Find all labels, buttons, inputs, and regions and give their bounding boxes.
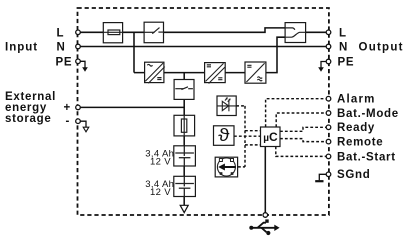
dashed bus from LED/rotary to uC [244, 106, 246, 167]
terminal Ready [326, 125, 331, 130]
svg-text:SGnd: SGnd [337, 169, 370, 181]
battery B2 symbol [175, 176, 194, 196]
dashed line temperature sensor to uC [234, 135, 261, 137]
terminal Alarm [326, 96, 331, 101]
battery switch box [174, 80, 194, 100]
terminal output N [326, 44, 331, 49]
switch S1 symbol [144, 28, 163, 34]
svg-text:Alarm: Alarm [337, 94, 376, 106]
battery B1 box [174, 146, 196, 166]
temperature sensor box [214, 126, 235, 146]
svg-text:µC: µC [263, 130, 278, 144]
dashed line LED to bus [236, 105, 245, 107]
USB symbol [249, 219, 279, 235]
terminal input L [76, 30, 81, 35]
svg-text:PE: PE [56, 56, 73, 68]
open arrow ground below battery B2 [180, 205, 188, 212]
terminal SGnd [326, 172, 331, 177]
svg-text:L: L [57, 27, 65, 39]
terminal input PE [76, 59, 81, 64]
relay (bypass switch) box [285, 23, 306, 43]
svg-text:External: External [5, 91, 56, 103]
LED indicator box [217, 96, 236, 116]
switch S1 box [144, 22, 163, 43]
microcontroller uC box [261, 127, 281, 147]
svg-text:12 V: 12 V [150, 187, 171, 198]
SGnd ground symbol [315, 174, 328, 181]
AC/DC converter symbol [145, 63, 165, 83]
battery switch symbol [175, 87, 193, 90]
svg-text:energy: energy [5, 102, 47, 114]
svg-text:Input: Input [5, 41, 38, 53]
DC/DC converter box [205, 63, 226, 83]
svg-text:L: L [339, 27, 347, 39]
dashed line uC to Ready [280, 127, 329, 131]
wire + terminal to battery column [78, 106, 184, 108]
dashed line bus to uC lower [245, 144, 261, 146]
wire L input to relay (with step up) [78, 28, 285, 32]
svg-text:Ready: Ready [337, 122, 375, 134]
terminal Remote [326, 139, 331, 144]
terminal storage minus [76, 119, 81, 124]
wire N input to output [78, 46, 329, 48]
battery B2 box [174, 176, 196, 196]
dashed enclosure border [78, 8, 329, 215]
svg-text:Output: Output [359, 42, 404, 54]
wire tap L down to AC/DC converter [133, 32, 135, 72]
svg-text:ϑ: ϑ [218, 126, 230, 146]
DC/AC inverter symbol [246, 63, 264, 82]
terminal Bat.-Mode [326, 111, 331, 116]
DC/AC inverter box [245, 62, 266, 83]
battery B1 symbol [175, 146, 194, 166]
svg-text:Bat.-Mode: Bat.-Mode [337, 108, 399, 120]
fuse F1 box [103, 23, 122, 43]
LED symbol [217, 98, 236, 112]
dashed line bus to uC upper [245, 130, 261, 132]
DC/DC converter symbol [206, 63, 226, 83]
svg-text:N: N [57, 42, 66, 54]
terminal storage plus [76, 105, 81, 110]
svg-text:12 V: 12 V [150, 157, 171, 168]
svg-text:PE: PE [338, 56, 355, 68]
output PE functional earth arrow [318, 62, 328, 72]
dashed line uC to Bat.-Start [276, 147, 329, 157]
svg-text:Remote: Remote [337, 137, 383, 149]
wire relay output to L output [306, 31, 329, 33]
terminal USB [263, 213, 268, 218]
fuse F1 symbol [103, 30, 122, 35]
terminal output PE [326, 59, 331, 64]
svg-text:-: - [66, 116, 71, 128]
relay contact symbol [285, 28, 306, 37]
dashed line rotary selector to bus [238, 166, 245, 168]
dashed line uC to Alarm [266, 99, 329, 127]
rotary selector box [215, 157, 237, 177]
svg-text:storage: storage [5, 113, 51, 125]
wire uC to USB terminal [264, 147, 266, 216]
wire battery column [183, 73, 185, 206]
terminal input N [76, 44, 81, 49]
battery fuse F2 box [174, 115, 195, 136]
rotary selector symbol [217, 158, 235, 176]
terminal Bat.-Start [326, 154, 331, 159]
terminal circles [76, 30, 331, 217]
dashed line uC to Remote [280, 139, 329, 142]
wire DC bus row and up to relay pin 2 [134, 37, 285, 72]
rotary selector arrow [218, 164, 236, 171]
battery fuse F2 symbol [181, 115, 186, 136]
component boxes [103, 22, 305, 196]
AC/DC converter box [145, 62, 164, 82]
minus terminal open arrow [78, 121, 89, 132]
svg-text:Bat.-Start: Bat.-Start [337, 151, 396, 163]
svg-text:+: + [64, 102, 71, 114]
dashed signal lines [234, 99, 329, 167]
input PE functional earth arrow [78, 61, 88, 72]
dashed line uC to Bat.-Mode [276, 113, 328, 127]
svg-text:N: N [339, 42, 348, 54]
terminal output L [326, 30, 331, 35]
